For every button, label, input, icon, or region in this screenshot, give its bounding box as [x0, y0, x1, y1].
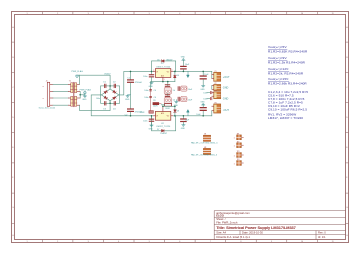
svg-text:8: 8	[240, 241, 241, 243]
diode D3	[104, 96, 108, 100]
wire ADJ net U1	[151, 81, 175, 83]
svg-text:9: 9	[271, 241, 272, 243]
wire -OUT rail	[173, 115, 212, 117]
svg-text:240R: 240R	[165, 108, 170, 110]
capacitor C12 snubber	[114, 84, 116, 88]
svg-text:11: 11	[332, 13, 334, 15]
svg-text:7: 7	[210, 241, 211, 243]
wire RV1 to RV2	[167, 93, 169, 95]
resistor R4	[140, 111, 154, 114]
TITLEBLOCK	[214, 211, 346, 240]
svg-text:1N4007: 1N4007	[166, 59, 173, 61]
resistor R2	[161, 104, 171, 111]
svg-text:R1: R1	[153, 100, 155, 102]
svg-text:+OUT: +OUT	[223, 76, 230, 79]
wire pads -OUT rise	[211, 111, 213, 116]
resistor R1	[153, 100, 162, 107]
svg-text:C6: C6	[154, 97, 156, 99]
wire D5 bypass loop U1	[152, 61, 176, 72]
svg-text:100n: 100n	[203, 98, 207, 100]
diode D1	[104, 90, 108, 94]
ground GND C4b	[150, 125, 153, 127]
svg-text:LM337_TO220: LM337_TO220	[156, 126, 171, 128]
ground GND middle	[175, 100, 178, 103]
svg-text:-OUT: -OUT	[223, 109, 230, 112]
svg-text:100n: 100n	[144, 90, 148, 92]
capacitor C9 small	[203, 97, 212, 100]
capacitor C16 small	[144, 96, 156, 99]
capacitor C10	[196, 105, 206, 116]
wire bridge plus to +raw rail	[120, 71, 154, 95]
wire +OUT rail	[173, 70, 212, 72]
svg-text:Vout(+/-)=9V:: Vout(+/-)=9V:	[268, 56, 287, 60]
ground GND top C5	[182, 59, 185, 61]
svg-text:7: 7	[210, 13, 211, 15]
svg-text:Size: A4: Size: A4	[216, 230, 226, 234]
svg-text:2: 2	[57, 13, 58, 15]
svg-text:GND: GND	[149, 129, 154, 131]
svg-text:GND: GND	[181, 128, 186, 130]
svg-text:ELGO: ELGO	[216, 214, 224, 218]
wire J1 pin4 to T1	[53, 104, 68, 106]
capacitor C1	[127, 71, 143, 108]
wire T1 secondary top to AC1 rail	[77, 75, 80, 84]
capacitor C5	[180, 60, 190, 71]
svg-text:PAD_SP_+OUT/GND_SNGL_6: PAD_SP_+OUT/GND_SNGL_6	[191, 142, 218, 145]
capacitor C8 small	[203, 91, 212, 94]
svg-text:8: 8	[240, 13, 241, 15]
capacitor C14 snubber	[114, 101, 116, 105]
ground GND C7	[202, 85, 205, 87]
connector J1	[39, 80, 55, 109]
svg-text:1N4007: 1N4007	[160, 133, 167, 135]
SCHEMATIC	[39, 56, 244, 165]
svg-text:4: 4	[118, 13, 119, 15]
svg-text:10: 10	[301, 13, 303, 15]
svg-text:4: 4	[118, 241, 119, 243]
wire bridge minus to -raw rail	[91, 95, 153, 116]
wire diamond top stub	[109, 86, 111, 89]
svg-text:5k: 5k	[173, 90, 175, 92]
svg-text:GND: GND	[149, 86, 154, 88]
wire J1 pin3 to T1	[53, 97, 68, 99]
NOTES	[268, 45, 308, 120]
svg-text:~: ~	[42, 85, 44, 89]
capacitor C2	[125, 108, 143, 116]
power flag PWR_FLAG2	[80, 89, 92, 95]
ground GND midpoint C1 C2	[126, 95, 131, 98]
svg-text:100n: 100n	[203, 92, 207, 94]
pad module M2	[191, 147, 217, 157]
svg-text:9: 9	[271, 13, 272, 15]
test point TP2	[234, 141, 244, 147]
svg-text:4700uF: 4700uF	[135, 82, 143, 84]
capacitor CP1	[178, 86, 193, 91]
svg-text:10: 10	[301, 241, 303, 243]
svg-text:R1,R2=2,66k R3,R4=240R: R1,R2=2,66k R3,R4=240R	[268, 81, 307, 85]
op-amp regulator U1 LM317	[153, 63, 173, 81]
wire bridge snubber loop	[101, 86, 120, 103]
svg-text:100n: 100n	[143, 120, 147, 122]
diode D2	[113, 90, 117, 94]
ground GND center tap	[83, 95, 86, 98]
wire diamond right stub	[118, 94, 121, 96]
svg-text:240R: 240R	[153, 106, 158, 108]
test point TP3	[234, 151, 244, 157]
svg-text:C9,10 = 100uF R6,5 R=2,5: C9,10 = 100uF R6,5 R=2,5	[268, 108, 307, 112]
svg-text:KiCad E.D.A. kicad (5.1.4)-1: KiCad E.D.A. kicad (5.1.4)-1	[216, 235, 250, 239]
svg-text:J1: J1	[46, 80, 48, 82]
wire diamond left stub	[100, 94, 103, 96]
svg-text:100n: 100n	[96, 98, 100, 100]
op-amp regulator U2 LM337	[153, 106, 173, 128]
node +OUT power arrow	[187, 71, 189, 77]
svg-text:LM317, LM337 = TO220: LM317, LM337 = TO220	[268, 116, 303, 120]
capacitor C7	[200, 71, 210, 85]
svg-text:D7: D7	[157, 129, 159, 131]
wire diamond bottom stub	[109, 101, 111, 104]
svg-text:GND: GND	[200, 101, 205, 103]
wire pads +OUT drop	[211, 71, 213, 78]
svg-text:File: PWR_2v.sch: File: PWR_2v.sch	[216, 220, 238, 224]
svg-text:5: 5	[149, 13, 150, 15]
junction center tap	[79, 94, 81, 96]
svg-text:Vout(+/-)=5V:: Vout(+/-)=5V:	[268, 45, 287, 49]
capacitor C11 snubber	[104, 84, 106, 88]
svg-text:1: 1	[164, 79, 165, 81]
capacitor C3	[143, 71, 154, 82]
svg-text:1: 1	[234, 163, 235, 165]
trimmer RV1	[164, 84, 175, 94]
svg-text:D5: D5	[157, 59, 159, 61]
svg-text:240R: 240R	[140, 112, 145, 114]
junction dots	[130, 71, 204, 117]
svg-text:GND: GND	[82, 99, 87, 101]
svg-text:1: 1	[234, 138, 235, 140]
wire J1 pin2 to T1	[53, 91, 68, 93]
wire ADJ left drop	[150, 82, 152, 90]
diode D4	[113, 96, 117, 100]
svg-text:C4: C4	[154, 90, 156, 92]
pad P2 GND	[212, 83, 221, 91]
test point TP4	[234, 159, 244, 165]
svg-text:GND: GND	[200, 89, 205, 91]
svg-text:1N4007: 1N4007	[104, 73, 110, 75]
svg-text:1: 1	[26, 241, 27, 243]
svg-text:Rev: 0: Rev: 0	[318, 230, 326, 234]
svg-text:100n: 100n	[143, 76, 147, 78]
svg-text:Screw_Term_01x04: Screw_Term_01x04	[39, 106, 55, 109]
diode D5	[162, 60, 165, 63]
svg-text:LM317_TO220: LM317_TO220	[156, 67, 171, 69]
ground GND C10	[202, 103, 205, 105]
svg-text:3: 3	[88, 13, 89, 15]
wire ADJ to RV1	[167, 82, 169, 87]
svg-text:100n: 100n	[144, 97, 148, 99]
diode D8	[174, 106, 180, 116]
svg-text:GND: GND	[223, 87, 229, 90]
svg-text:6: 6	[179, 241, 180, 243]
pad P3 GND	[212, 90, 221, 99]
svg-text:1: 1	[26, 13, 27, 15]
svg-text:Vout(+/-)=15V:: Vout(+/-)=15V:	[268, 77, 289, 81]
pad P4 -OUT	[212, 102, 221, 113]
svg-text:5: 5	[149, 241, 150, 243]
svg-text:2: 2	[57, 241, 58, 243]
svg-text:Vout(+/-)=12V:: Vout(+/-)=12V:	[268, 67, 289, 71]
svg-text:D6: D6	[177, 75, 179, 77]
capacitor CP2	[178, 97, 193, 102]
wire D7 bypass loop U2	[152, 116, 176, 131]
capacitor C6	[180, 116, 190, 125]
wire J1 pin1 to T1	[53, 83, 68, 85]
svg-text:11: 11	[332, 241, 334, 243]
pad P1 +OUT	[212, 71, 221, 82]
power flag PWR_FLAG1	[71, 70, 83, 77]
svg-text:PWR_FLAG: PWR_FLAG	[80, 89, 92, 92]
svg-text:PWR_FLAG: PWR_FLAG	[71, 70, 83, 73]
ground GND C3	[150, 82, 153, 84]
bridge diamond wires	[101, 89, 118, 101]
pad module M1	[191, 134, 218, 145]
ground GND C6	[182, 125, 185, 127]
diode D6	[174, 71, 180, 81]
capacitor C4b	[143, 116, 154, 125]
svg-text:Id: 1/1: Id: 1/1	[318, 235, 326, 239]
wire T1 center tap	[79, 92, 81, 98]
svg-text:R1,R2=1,5k R3,R4=240R: R1,R2=1,5k R3,R4=240R	[268, 61, 306, 65]
svg-text:3: 3	[88, 241, 89, 243]
transformer T1	[68, 80, 80, 106]
junction bridge top	[109, 85, 111, 87]
svg-text:R1,R2=0,83K R3,R4=240R: R1,R2=0,83K R3,R4=240R	[268, 50, 308, 54]
junction bridge bottom	[109, 103, 111, 105]
diode D7	[162, 129, 165, 132]
wire T1 secondary bottom to AC2 rail	[80, 101, 111, 111]
svg-text:Date: 2019-10-30: Date: 2019-10-30	[242, 230, 263, 234]
node -OUT power arrow	[187, 110, 189, 116]
svg-text:GND: GND	[223, 98, 229, 101]
svg-text:T1: T1	[69, 80, 71, 82]
trimmer RV2	[164, 94, 175, 103]
svg-text:2: 2	[172, 70, 173, 72]
svg-text:PAD_SP_-OUT/GND_SNGL_6: PAD_SP_-OUT/GND_SNGL_6	[191, 154, 217, 157]
svg-text:R1,R2=2k, R3,R4=240R: R1,R2=2k, R3,R4=240R	[268, 72, 304, 76]
svg-text:GND: GND	[181, 56, 186, 58]
capacitor C15 small	[144, 89, 156, 92]
wire ADJ net U2	[163, 105, 175, 107]
svg-text:~: ~	[42, 97, 44, 101]
test point TP1	[234, 133, 244, 139]
svg-text:GND: GND	[125, 99, 130, 101]
svg-text:1: 1	[234, 146, 235, 148]
capacitor C13 snubber	[104, 101, 106, 105]
svg-text:D8: D8	[177, 110, 179, 112]
svg-text:Title: Simetrical Power Supply: Title: Simetrical Power Supply LM317/LM3…	[216, 225, 296, 230]
pin line left column	[150, 89, 152, 112]
svg-text:1: 1	[234, 155, 235, 157]
svg-text:6: 6	[179, 13, 180, 15]
